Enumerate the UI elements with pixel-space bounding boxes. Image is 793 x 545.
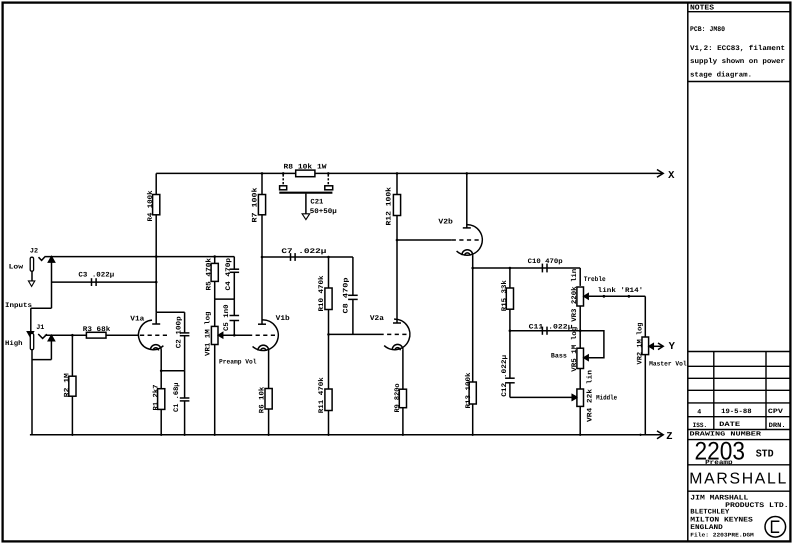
svg-text:C12 .022µ: C12 .022µ: [501, 355, 509, 397]
svg-text:Master Vol: Master Vol: [649, 360, 687, 367]
svg-text:Low: Low: [9, 263, 25, 271]
svg-text:Z: Z: [666, 431, 672, 443]
svg-text:Treble: Treble: [584, 276, 606, 284]
svg-text:R6 10k: R6 10k: [258, 387, 267, 414]
svg-text:R5 470k: R5 470k: [205, 258, 214, 291]
svg-text:C1 .68µ: C1 .68µ: [173, 383, 181, 413]
svg-text:R15 33k: R15 33k: [500, 280, 509, 311]
svg-text:VR5 1M log: VR5 1M log: [570, 327, 579, 372]
svg-text:BLETCHLEY: BLETCHLEY: [690, 509, 730, 517]
svg-text:C4 470p: C4 470p: [225, 258, 233, 291]
svg-text:R8 10k 1W: R8 10k 1W: [284, 163, 328, 172]
svg-text:R4 100k: R4 100k: [146, 191, 155, 222]
svg-text:V1a: V1a: [130, 315, 145, 323]
svg-text:PCB: JM80: PCB: JM80: [690, 26, 725, 34]
svg-text:R2 1M: R2 1M: [64, 373, 72, 397]
svg-text:PRODUCTS LTD.: PRODUCTS LTD.: [725, 502, 789, 510]
svg-text:link 'R14': link 'R14': [598, 287, 644, 295]
svg-text:Bass: Bass: [551, 353, 567, 361]
svg-text:CPV: CPV: [768, 408, 783, 415]
svg-text:50+50µ: 50+50µ: [310, 208, 337, 216]
svg-text:C7 .022µ: C7 .022µ: [281, 248, 326, 256]
svg-text:V1b: V1b: [276, 314, 290, 323]
svg-text:NOTES: NOTES: [690, 5, 715, 13]
svg-text:High: High: [5, 340, 23, 348]
svg-text:stage diagram.: stage diagram.: [690, 70, 752, 79]
svg-text:Preamp Vol: Preamp Vol: [219, 359, 257, 366]
svg-text:Inputs: Inputs: [5, 302, 32, 310]
svg-text:ISS.: ISS.: [693, 422, 708, 429]
svg-text:STD: STD: [756, 448, 774, 460]
svg-text:C21: C21: [310, 198, 323, 206]
svg-text:V2a: V2a: [370, 315, 385, 323]
svg-text:R9 820o: R9 820o: [394, 384, 402, 413]
svg-text:C8 470p: C8 470p: [342, 278, 350, 314]
svg-text:VR2 1M log: VR2 1M log: [636, 323, 645, 365]
svg-text:R1 2k7: R1 2k7: [151, 385, 160, 411]
svg-text:Preamp: Preamp: [705, 459, 733, 466]
svg-text:C11 .022µ: C11 .022µ: [529, 323, 573, 331]
svg-text:J1: J1: [36, 324, 44, 332]
svg-text:Middle: Middle: [596, 395, 617, 403]
svg-text:R11 470k: R11 470k: [317, 377, 326, 413]
svg-text:X: X: [668, 170, 675, 182]
svg-text:C5 1n0: C5 1n0: [223, 305, 231, 332]
svg-text:C10 470p: C10 470p: [528, 258, 563, 266]
svg-text:19-5-88: 19-5-88: [721, 408, 752, 415]
svg-text:DATE: DATE: [719, 421, 740, 428]
svg-text:supply shown on power: supply shown on power: [690, 57, 785, 66]
svg-text:R12 100k: R12 100k: [385, 187, 394, 226]
svg-text:Y: Y: [669, 341, 676, 353]
svg-text:R7 100k: R7 100k: [250, 188, 259, 223]
svg-text:File: 2203PRE.DGM: File: 2203PRE.DGM: [690, 532, 754, 539]
svg-text:4: 4: [697, 409, 701, 416]
svg-text:V2b: V2b: [438, 218, 453, 227]
svg-text:R13 100k: R13 100k: [464, 373, 473, 409]
svg-text:MARSHALL: MARSHALL: [689, 471, 786, 488]
svg-text:VR4 22k lin: VR4 22k lin: [586, 370, 595, 422]
svg-text:DRN.: DRN.: [769, 422, 786, 429]
svg-text:C2 100p: C2 100p: [176, 316, 184, 348]
svg-text:V1,2: ECC83, filament: V1,2: ECC83, filament: [690, 44, 785, 53]
svg-text:VR1 1M log: VR1 1M log: [204, 312, 213, 357]
svg-text:VR3 220k lin: VR3 220k lin: [570, 269, 579, 322]
svg-text:R10 470k: R10 470k: [317, 276, 326, 312]
svg-text:J2: J2: [30, 247, 38, 255]
svg-text:C3 .022µ: C3 .022µ: [78, 272, 114, 280]
